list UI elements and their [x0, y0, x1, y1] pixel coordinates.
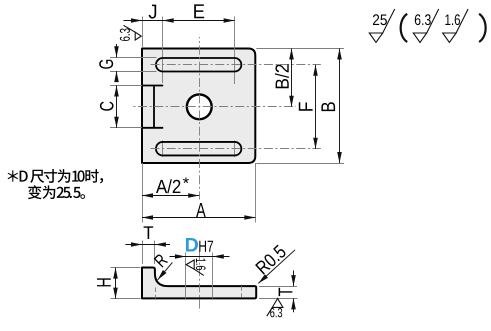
label F — [299, 102, 313, 110]
label E — [194, 4, 204, 18]
dimension J/E line — [124, 20, 235, 22]
label T (side right) — [279, 288, 293, 296]
label R — [154, 253, 168, 267]
dimension F — [315, 65, 317, 149]
centerline bottom slot — [151, 148, 321, 150]
right T extension lines — [259, 286, 297, 288]
surface finish 1.6 (bore) — [186, 260, 204, 275]
label 1.6 legend — [445, 14, 460, 25]
label 6.3 bottom — [270, 308, 282, 317]
label 1.6 bore — [196, 259, 206, 271]
extension line slot left center — [162, 17, 164, 84]
leader R (fillet) — [158, 262, 173, 280]
label B — [321, 102, 335, 111]
extension lines right B dimension — [256, 48, 344, 50]
label H7 — [199, 241, 213, 252]
extension lines A dimension — [142, 163, 144, 223]
dimension G — [116, 44, 118, 57]
dimension B/2 — [291, 49, 293, 107]
dimension T (side top) — [125, 244, 170, 246]
hidden line slot right — [241, 286, 243, 298]
slot top — [156, 58, 241, 72]
label T (side top) — [144, 226, 154, 239]
dimension D — [170, 256, 230, 258]
dimension H — [115, 268, 117, 299]
bottom slot arc center marks — [162, 141, 164, 158]
extension line plate left edge (J) — [142, 17, 144, 49]
label R0.5 — [255, 244, 287, 275]
label G — [99, 60, 113, 69]
parenthesis open — [401, 14, 408, 42]
surface finish 6.3 top-left — [124, 25, 142, 40]
label asterisk — [183, 178, 189, 184]
label J — [149, 5, 157, 19]
dimension C — [116, 86, 118, 128]
left notch bottom edge — [142, 127, 163, 129]
surface finish legend 25 — [369, 9, 394, 42]
surface finish 6.3 (bottom) — [267, 299, 283, 317]
extension lines C — [110, 85, 142, 87]
centerline hole vertical — [199, 37, 201, 200]
label A — [196, 203, 206, 217]
plate outline (top view) — [142, 49, 255, 164]
label C — [100, 102, 114, 111]
leader R0.5 (corner) — [258, 250, 295, 284]
label 6.3 legend — [415, 14, 431, 25]
D hole walls / extension lines — [185, 253, 187, 299]
L-profile outline (side view) — [142, 268, 256, 299]
label D — [186, 238, 198, 252]
label B/2 — [275, 64, 289, 88]
centerline hole horizontal — [132, 106, 297, 108]
T extension lines (side top) — [142, 241, 144, 265]
label 25 — [373, 14, 387, 25]
slot bottom — [156, 142, 241, 156]
extension lines G — [110, 57, 157, 59]
surface finish legend 6.3 — [413, 9, 438, 42]
center hole — [187, 94, 212, 119]
label 6.3 top-left — [120, 29, 130, 41]
extension line slot right center — [234, 17, 236, 85]
parenthesis close — [479, 14, 486, 42]
section centerline — [199, 251, 201, 312]
H extension lines — [111, 267, 141, 269]
dimension A — [142, 217, 255, 219]
note text (Chinese) — [8, 169, 104, 199]
dimension B — [339, 49, 341, 164]
dimension A/2 — [142, 195, 199, 197]
surface finish legend 1.6 — [443, 9, 468, 42]
left notch top edge — [142, 85, 163, 87]
left notch inner wall — [153, 86, 155, 128]
label H — [97, 278, 111, 286]
hidden line slot left — [155, 288, 157, 299]
label A/2 — [156, 179, 180, 193]
centerline top slot — [151, 64, 321, 66]
dimension T (side right) — [293, 271, 295, 287]
